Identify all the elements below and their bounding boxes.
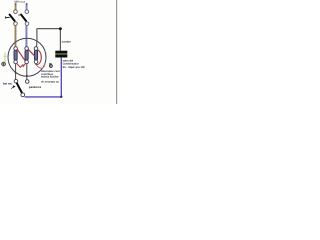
switch S1 terminal top-left [14, 10, 18, 14]
junction dot capacitor feed [59, 27, 62, 30]
svg-text:bobina auxiliar: bobina auxiliar [41, 76, 59, 79]
switch S1 terminal bottom-left [14, 22, 18, 26]
wire W1 bottom to centrifugal switch [15, 64, 17, 80]
switch S1 blade left [10, 15, 15, 21]
centrifugal switch terminal left [14, 79, 18, 83]
centrifugal switch arrow [11, 87, 13, 89]
switch S1 terminal top-right [25, 10, 29, 14]
purple wire capacitor to centrifugal switch [25, 58, 62, 97]
wire L brown upper [15, 3, 17, 9]
red link V bottom [17, 63, 26, 67]
wire W2 bottom to centrifugal switch [26, 64, 28, 80]
capacitor C1 plate bottom [55, 55, 67, 58]
svg-text:de arranque au: de arranque au [41, 80, 59, 83]
wire N blue to motor [26, 26, 28, 47]
winding W3 right [34, 47, 38, 64]
capacitor C1 plate top [55, 51, 67, 54]
switch S1 blade right [21, 15, 26, 21]
screw terminal left [2, 62, 6, 66]
capacitor C1 dielectric [55, 53, 67, 55]
centrifugal switch blade [17, 83, 22, 93]
wire L brown to motor [15, 26, 17, 47]
winding W1 left [14, 47, 18, 64]
centrifugal switch bottom terminal [21, 93, 25, 97]
switch S1 terminal bottom-right [25, 22, 29, 26]
junction dot purple corner [60, 96, 62, 98]
red hook on W3 [36, 50, 42, 65]
svg-text:bat sw.: bat sw. [3, 82, 13, 86]
svg-text:común: común [62, 39, 71, 43]
svg-text:palanca: palanca [29, 85, 42, 89]
centrifugal switch terminal right [25, 80, 29, 84]
switch S1 handle [6, 16, 10, 18]
motor M1 frame [8, 38, 46, 76]
svg-text:220 v c.a: 220 v c.a [14, 0, 25, 3]
red link A [17, 49, 25, 60]
red tail toward screw [37, 64, 45, 68]
svg-text:50 - 55µF p/u HP.: 50 - 55µF p/u HP. [63, 66, 86, 69]
winding W2 middle [25, 47, 29, 64]
earth wire green [4, 53, 7, 63]
grey wire to capacitor [36, 29, 60, 51]
red link B [28, 49, 34, 56]
switch S1 linkage dashes [18, 14, 20, 16]
screw terminal right [49, 63, 51, 65]
wire N blue upper [26, 3, 28, 9]
